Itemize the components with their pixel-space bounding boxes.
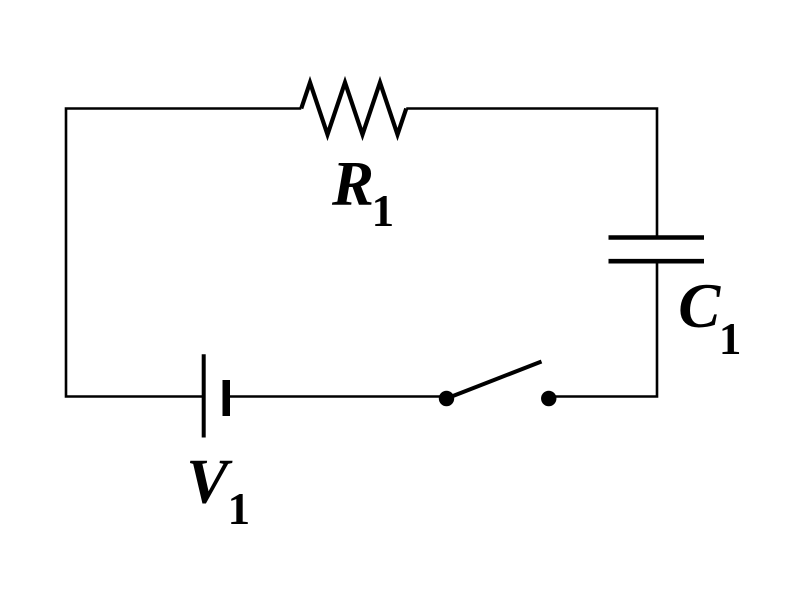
svg-text:1: 1 [372, 186, 395, 236]
svg-text:1: 1 [228, 484, 251, 534]
svg-text:R: R [331, 149, 374, 219]
svg-text:V: V [186, 447, 233, 517]
svg-text:1: 1 [719, 314, 742, 364]
svg-text:C: C [678, 271, 721, 341]
